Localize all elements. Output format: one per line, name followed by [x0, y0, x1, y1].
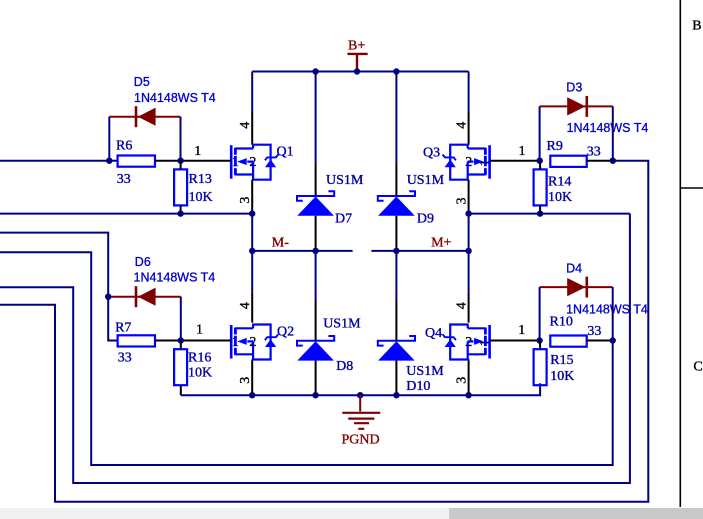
wire loop A (Q4 gate node to left edge): [0, 252, 613, 465]
junction R10 right / D4 / loop A: [610, 337, 616, 343]
sheet border vertical line: [679, 0, 681, 507]
junction Q3 source node: [465, 210, 471, 216]
junction M+ right: [465, 248, 471, 254]
junction top rail x=315.6: [312, 68, 318, 74]
svg-text:US1M: US1M: [323, 317, 361, 332]
wire D4 right drop: [612, 287, 614, 340]
wire M- rail: [252, 250, 352, 252]
svg-text:PGND: PGND: [342, 433, 380, 448]
wire D3 right drop: [612, 106, 614, 160]
svg-text:B: B: [692, 19, 701, 34]
junction PGND at Q2 source: [249, 392, 255, 398]
resistor R6: [118, 156, 155, 167]
pin Q3 source (3): [468, 180, 470, 214]
pin R16 bottom lead: [180, 385, 182, 395]
pin Q1 drain (4): [251, 112, 253, 145]
junction R6/R13/D5/gate node: [177, 158, 183, 164]
svg-text:D8: D8: [336, 359, 353, 374]
junction PGND at ground stem: [357, 392, 363, 398]
svg-text:3: 3: [238, 377, 253, 384]
pin D10 anode: [395, 361, 397, 396]
pin R13 top lead: [180, 161, 182, 170]
wire D5 left drop: [108, 117, 110, 161]
svg-text:R16: R16: [188, 351, 211, 366]
svg-text:R6: R6: [116, 139, 132, 154]
pin Q2 drain (4): [251, 294, 253, 323]
transistor Q4: [443, 325, 490, 360]
junction M- left: [249, 248, 255, 254]
svg-text:D3: D3: [566, 80, 582, 94]
pin R9 right lead: [587, 160, 613, 162]
svg-text:C: C: [693, 360, 702, 375]
wire M+ rail: [371, 250, 468, 252]
svg-text:33: 33: [117, 172, 131, 187]
svg-text:D5: D5: [134, 75, 150, 89]
svg-text:US1M: US1M: [407, 173, 445, 188]
wire Q1 source to M- rail: [251, 214, 253, 251]
svg-text:3: 3: [454, 198, 469, 205]
pin Q4 drain (4): [468, 294, 470, 323]
svg-text:33: 33: [587, 324, 601, 339]
pin D8 cathode: [315, 300, 317, 341]
svg-text:R7: R7: [115, 321, 131, 336]
diode D9 (US1M): [378, 191, 415, 216]
svg-text:Q3: Q3: [423, 145, 440, 160]
resistor R9: [550, 156, 586, 167]
pin Q4 source (3): [468, 359, 470, 395]
resistor R14: [534, 169, 547, 205]
pin R16 top lead: [180, 341, 182, 350]
pin D10 cathode: [395, 300, 397, 341]
pin R14 top lead: [539, 161, 541, 170]
pin D9 cathode: [395, 164, 397, 196]
pin Q4 gate (1) wire to junction: [490, 340, 540, 342]
svg-text:1N4148WS T4: 1N4148WS T4: [566, 303, 648, 317]
svg-text:10K: 10K: [188, 366, 212, 381]
pin D8 anode: [315, 361, 317, 396]
svg-text:10K: 10K: [550, 369, 574, 384]
svg-text:B+: B+: [348, 39, 365, 54]
pin R15 top lead: [539, 341, 541, 350]
wire PGND rail: [181, 383, 540, 395]
svg-text:D7: D7: [335, 212, 352, 227]
wire Q1 drain column: [251, 72, 253, 113]
power symbol B+: [347, 54, 367, 72]
wire Q4 drain column from M+: [468, 251, 470, 294]
svg-text:US1M: US1M: [326, 173, 364, 188]
pin D7 anode: [315, 216, 317, 251]
svg-text:R13: R13: [189, 172, 212, 187]
svg-text:33: 33: [118, 351, 132, 366]
pin R14 bottom lead: [539, 205, 541, 213]
svg-text:1: 1: [518, 323, 525, 338]
transistor Q3: [443, 145, 490, 180]
pin Q3 drain (4): [468, 112, 470, 145]
pin Q3 gate (1) wire to junction: [490, 160, 540, 162]
svg-text:4: 4: [238, 302, 253, 309]
junction D5 left on gate wire: [106, 158, 112, 164]
pin Q2 gate (1) wire to junction: [181, 340, 231, 342]
svg-text:3: 3: [454, 377, 469, 384]
wire loop C (Q3 gate node to left edge): [0, 161, 648, 502]
svg-text:1N4148WS T4: 1N4148WS T4: [134, 271, 216, 285]
svg-text:33: 33: [587, 144, 601, 159]
wire Q2 drain column from M-: [251, 251, 253, 294]
wire loop B (M+ to left edge): [0, 214, 630, 483]
sheet border divider: [680, 187, 703, 189]
pin R10 right lead: [587, 340, 613, 342]
svg-text:R14: R14: [548, 175, 571, 190]
junction R13 bottom: [177, 210, 183, 216]
svg-text:R9: R9: [547, 139, 563, 154]
junction PGND at Q4 source: [465, 392, 471, 398]
junction M+ at D9/D10 column: [393, 248, 399, 254]
scrollbar thumb: [449, 508, 703, 519]
junction R9/R14/D3/gate node: [537, 158, 543, 164]
pin R7 right lead: [155, 340, 181, 342]
diode D5 1N4148WS: [109, 106, 180, 127]
svg-text:M-: M-: [272, 236, 289, 251]
svg-text:D6: D6: [135, 255, 151, 269]
wire Q1 gate input from left edge: [0, 160, 117, 162]
wire D4 left drop: [539, 287, 541, 340]
svg-text:R15: R15: [550, 353, 573, 368]
junction R10/R15/D4/gate node: [536, 337, 542, 343]
junction Q1 source node: [249, 210, 255, 216]
pin Q1 source (3): [251, 180, 253, 214]
pin Q2 source (3): [251, 359, 253, 395]
svg-text:3: 3: [238, 197, 253, 204]
wire Q3 source to M+ rail: [468, 214, 470, 251]
svg-text:1: 1: [196, 322, 203, 337]
svg-text:4: 4: [454, 122, 469, 129]
svg-text:1: 1: [519, 144, 526, 159]
svg-text:4: 4: [238, 122, 253, 129]
wire D10 cathode column from M+: [395, 251, 397, 300]
svg-text:D10: D10: [406, 379, 430, 394]
svg-text:Q2: Q2: [277, 324, 294, 339]
diode D6 1N4148WS: [108, 286, 181, 307]
junction top rail x=396.4: [393, 68, 399, 74]
junction R7/R16/D6/gate node: [178, 337, 184, 343]
wire D8 cathode column from M-: [315, 251, 317, 300]
svg-text:D4: D4: [566, 262, 582, 276]
pin R13 bottom lead: [180, 205, 182, 213]
svg-text:US1M: US1M: [406, 364, 444, 379]
pin D9 anode: [395, 216, 397, 251]
svg-text:D9: D9: [417, 212, 434, 227]
junction top rail x=357: [354, 68, 360, 74]
scrollbar track: [0, 508, 703, 519]
ground symbol PGND: [342, 395, 380, 429]
diode D7 (US1M): [297, 191, 334, 216]
junction R9 right / D3 / loop C: [610, 158, 616, 164]
wire D5 right drop: [180, 117, 182, 161]
svg-text:Q4: Q4: [425, 326, 442, 341]
diode D10 (US1M): [378, 336, 415, 361]
wire Q3 drain column: [468, 72, 470, 113]
svg-text:4: 4: [454, 302, 469, 309]
svg-text:R10: R10: [550, 315, 573, 330]
wire D3 left drop: [539, 106, 541, 160]
wire top B+ rail: [252, 71, 468, 73]
wire D9 cathode column: [395, 72, 397, 165]
junction D6 left: [105, 294, 111, 300]
svg-text:1N4148WS T4: 1N4148WS T4: [567, 121, 649, 135]
wire Q3 source rail to loop B: [469, 213, 630, 215]
resistor R13: [174, 169, 187, 205]
resistor R10: [550, 336, 586, 347]
diode D4 1N4148WS: [540, 277, 613, 298]
wire M- return from left edge: [0, 213, 252, 215]
pin D7 cathode: [315, 164, 317, 196]
transistor Q2: [231, 325, 278, 360]
svg-text:M+: M+: [431, 236, 451, 251]
wire Q2 gate input from left edge: [0, 233, 117, 341]
pin R6 right lead: [155, 160, 181, 162]
diode D3 1N4148WS: [540, 96, 613, 117]
svg-text:1: 1: [194, 144, 201, 159]
svg-text:Q1: Q1: [277, 144, 294, 159]
resistor R7: [118, 335, 155, 346]
pin Q1 gate (1) wire to junction: [181, 160, 231, 162]
wire D7 cathode column: [315, 72, 317, 165]
wire D6 right drop: [180, 297, 182, 341]
junction PGND at D8: [312, 392, 318, 398]
svg-text:1N4148WS T4: 1N4148WS T4: [134, 91, 216, 105]
svg-text:10K: 10K: [189, 190, 213, 205]
diode D8 (US1M): [297, 336, 334, 361]
junction R14 bottom: [537, 210, 543, 216]
resistor R16: [174, 349, 187, 385]
junction PGND at D10: [393, 392, 399, 398]
junction M- at D7/D8 column: [312, 248, 318, 254]
transistor Q1: [231, 145, 278, 180]
svg-text:10K: 10K: [548, 190, 572, 205]
resistor R15: [534, 349, 547, 385]
